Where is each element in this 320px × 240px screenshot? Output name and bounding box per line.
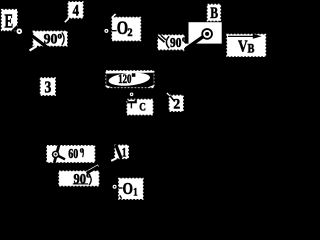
svg-text:C: C — [139, 101, 146, 113]
svg-text:3: 3 — [45, 77, 52, 96]
svg-text:B: B — [248, 41, 255, 56]
svg-text:120: 120 — [118, 72, 131, 86]
svg-text:1: 1 — [133, 185, 137, 199]
svg-text:90: 90 — [44, 31, 58, 47]
svg-text:60: 60 — [68, 147, 78, 162]
svg-text:1: 1 — [122, 145, 127, 159]
svg-text:o: o — [58, 31, 63, 41]
svg-text:E: E — [4, 11, 13, 33]
svg-text:2: 2 — [127, 25, 132, 39]
svg-text:2: 2 — [173, 96, 180, 112]
svg-text:90: 90 — [170, 35, 182, 50]
svg-text:90: 90 — [74, 171, 87, 187]
svg-text:o: o — [182, 34, 186, 44]
svg-text:O: O — [123, 179, 133, 198]
svg-text:B: B — [210, 5, 218, 22]
svg-text:4: 4 — [73, 3, 79, 20]
